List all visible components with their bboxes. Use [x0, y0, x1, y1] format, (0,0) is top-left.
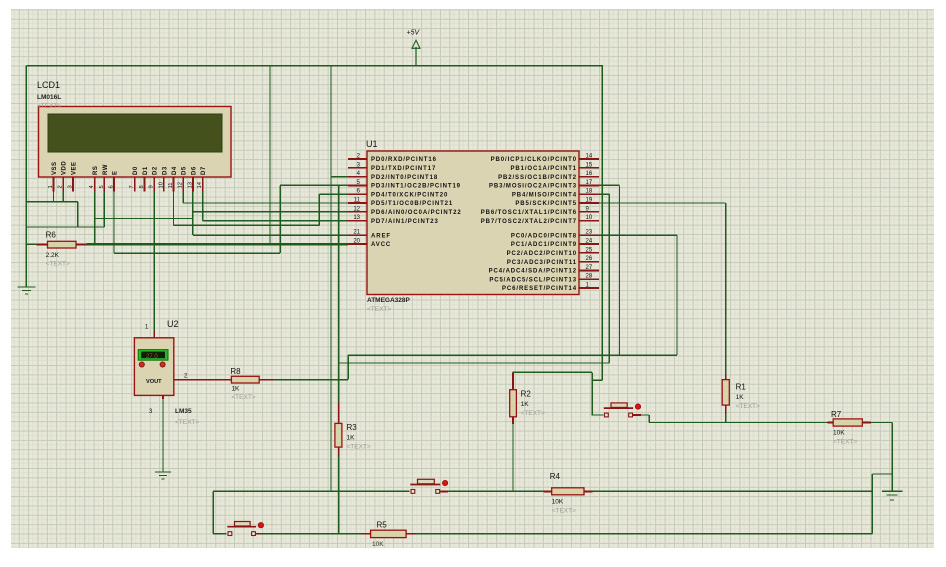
svg-text:1: 1 [48, 185, 54, 188]
svg-text:1K: 1K [521, 401, 530, 408]
svg-text:10: 10 [586, 215, 593, 221]
svg-text:AREF: AREF [371, 233, 391, 239]
svg-text:AVCC: AVCC [371, 242, 391, 248]
svg-text:17: 17 [586, 180, 593, 186]
svg-text:D2: D2 [153, 166, 159, 175]
svg-text:<TEXT>: <TEXT> [231, 394, 255, 401]
svg-text:D3: D3 [162, 166, 168, 175]
svg-text:23: 23 [586, 230, 593, 236]
svg-text:D5: D5 [182, 166, 188, 175]
svg-text:LCD1: LCD1 [37, 80, 60, 90]
svg-text:5: 5 [99, 185, 105, 188]
svg-text:VDD: VDD [62, 161, 68, 175]
svg-text:PB0/ICP1/CLKO/PCINT0: PB0/ICP1/CLKO/PCINT0 [491, 157, 577, 163]
svg-text:28: 28 [586, 274, 593, 280]
svg-text:11: 11 [354, 198, 361, 204]
svg-text:10K: 10K [833, 430, 845, 437]
svg-text:+5V: +5V [407, 30, 421, 37]
svg-text:9: 9 [149, 185, 155, 188]
svg-text:R4: R4 [550, 472, 561, 481]
svg-text:11: 11 [168, 182, 174, 188]
svg-text:13: 13 [353, 215, 360, 221]
svg-text:10K: 10K [552, 499, 564, 506]
svg-text:12: 12 [178, 182, 184, 188]
svg-text:6: 6 [109, 185, 115, 188]
svg-text:PD2/INT0/PCINT18: PD2/INT0/PCINT18 [371, 175, 438, 181]
svg-text:PC5/ADC5/SCL/PCINT13: PC5/ADC5/SCL/PCINT13 [489, 277, 577, 283]
svg-text:24: 24 [586, 239, 593, 245]
svg-text:PB4/MISO/PCINT4: PB4/MISO/PCINT4 [512, 192, 577, 198]
svg-text:14: 14 [586, 154, 593, 160]
svg-text:14: 14 [197, 181, 203, 188]
svg-text:PC3/ADC3/PCINT11: PC3/ADC3/PCINT11 [507, 260, 577, 266]
svg-text:19: 19 [586, 198, 593, 204]
svg-text:D6: D6 [191, 166, 197, 175]
svg-text:PD3/INT1/OC2B/PCINT19: PD3/INT1/OC2B/PCINT19 [371, 184, 461, 190]
svg-text:PC2/ADC2/PCINT10: PC2/ADC2/PCINT10 [507, 251, 577, 257]
svg-text:<TEXT>: <TEXT> [833, 439, 857, 446]
svg-text:U1: U1 [366, 139, 378, 149]
svg-text:VOUT: VOUT [146, 379, 162, 385]
svg-text:PB1/OC1A/PCINT1: PB1/OC1A/PCINT1 [510, 166, 577, 172]
svg-text:PD6/AIN0/OC0A/PCINT22: PD6/AIN0/OC0A/PCINT22 [371, 210, 462, 216]
svg-text:1K: 1K [736, 394, 745, 401]
svg-text:<TEXT>: <TEXT> [552, 508, 576, 515]
svg-text:R5: R5 [377, 521, 388, 530]
svg-text:18: 18 [586, 189, 593, 195]
svg-text:<TEXT>: <TEXT> [46, 261, 70, 268]
svg-text:RS: RS [93, 166, 99, 175]
svg-text:PD1/TXD/PCINT17: PD1/TXD/PCINT17 [371, 166, 436, 172]
svg-text:27: 27 [586, 265, 593, 271]
svg-text:25: 25 [586, 247, 593, 253]
svg-text:PD7/AIN1/PCINT23: PD7/AIN1/PCINT23 [371, 219, 439, 225]
svg-text:R7: R7 [831, 410, 842, 419]
svg-text:PB3/MOSI/OC2A/PCINT3: PB3/MOSI/OC2A/PCINT3 [489, 184, 577, 190]
svg-text:10K: 10K [372, 541, 384, 548]
svg-text:E: E [113, 170, 119, 175]
svg-text:PD4/T0/XCK/PCINT20: PD4/T0/XCK/PCINT20 [371, 192, 448, 198]
svg-text:LM016L: LM016L [37, 94, 61, 101]
svg-text:RW: RW [103, 164, 109, 175]
svg-text:ATMEGA328P: ATMEGA328P [367, 297, 411, 304]
svg-text:2.2K: 2.2K [46, 252, 60, 259]
svg-text:3: 3 [67, 185, 73, 188]
svg-text:VSS: VSS [52, 161, 58, 175]
svg-text:1K: 1K [231, 386, 240, 393]
svg-text:R8: R8 [230, 367, 241, 376]
svg-text:PB2/SS/OC1B/PCINT2: PB2/SS/OC1B/PCINT2 [498, 175, 577, 181]
svg-text:10: 10 [158, 182, 164, 188]
svg-text:26: 26 [586, 256, 593, 262]
svg-text:<TEXT>: <TEXT> [521, 410, 545, 417]
svg-text:PD5/T1/OC0B/PCINT21: PD5/T1/OC0B/PCINT21 [371, 201, 453, 207]
svg-text:<TEXT>: <TEXT> [175, 419, 199, 426]
svg-text:D1: D1 [143, 166, 149, 175]
svg-text:D7: D7 [201, 166, 207, 175]
svg-text:PB6/TOSC1/XTAL1/PCINT6: PB6/TOSC1/XTAL1/PCINT6 [481, 210, 577, 216]
svg-text:27.0: 27.0 [146, 354, 158, 360]
svg-text:PC1/ADC1/PCINT9: PC1/ADC1/PCINT9 [511, 242, 577, 248]
svg-text:PB7/TOSC2/XTAL2/PCINT7: PB7/TOSC2/XTAL2/PCINT7 [481, 219, 577, 225]
svg-text:13: 13 [187, 182, 193, 188]
svg-text:12: 12 [353, 206, 360, 212]
svg-text:R6: R6 [46, 231, 57, 240]
svg-text:<TEXT>: <TEXT> [736, 403, 760, 410]
svg-text:1K: 1K [347, 435, 356, 442]
svg-text:U2: U2 [167, 319, 179, 329]
svg-text:R1: R1 [736, 383, 747, 392]
svg-text:<TEXT>: <TEXT> [37, 103, 61, 110]
svg-text:PD0/RXD/PCINT16: PD0/RXD/PCINT16 [371, 157, 437, 163]
svg-text:R3: R3 [347, 423, 358, 432]
svg-text:PB5/SCK/PCINT5: PB5/SCK/PCINT5 [515, 201, 577, 207]
svg-text:8: 8 [139, 185, 145, 188]
svg-text:2: 2 [58, 185, 64, 188]
svg-text:<TEXT>: <TEXT> [347, 444, 371, 451]
svg-text:7: 7 [129, 185, 135, 188]
svg-text:21: 21 [353, 230, 360, 236]
svg-text:16: 16 [586, 171, 593, 177]
svg-text:D0: D0 [133, 166, 139, 175]
svg-text:15: 15 [586, 162, 593, 168]
svg-text:PC4/ADC4/SDA/PCINT12: PC4/ADC4/SDA/PCINT12 [489, 269, 577, 275]
svg-text:PC6/RESET/PCINT14: PC6/RESET/PCINT14 [502, 286, 577, 292]
svg-text:VEE: VEE [71, 161, 77, 175]
svg-text:PC0/ADC0/PCINT8: PC0/ADC0/PCINT8 [511, 233, 577, 239]
svg-text:D4: D4 [172, 166, 178, 175]
svg-text:<TEXT>: <TEXT> [367, 306, 391, 313]
svg-text:20: 20 [353, 239, 360, 245]
svg-text:R2: R2 [521, 390, 532, 399]
svg-text:LM35: LM35 [175, 408, 192, 415]
